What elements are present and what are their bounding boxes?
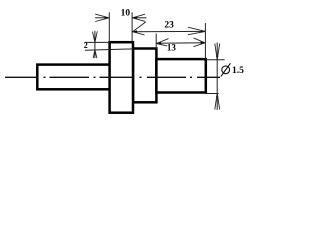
arrowhead diameter top (points down)	[216, 56, 218, 60]
extension line for dim 2 upper (flange OD extended left)	[85, 41, 110, 43]
arrowhead dim13 left (points left)	[156, 42, 161, 45]
arrowhead dim13 right (points right)	[201, 41, 206, 44]
dimension line 2 (vertical)	[94, 31, 96, 58]
extension line for dim 10 (left, above flange)	[108, 12, 110, 42]
extension line for diameter dim bottom (shaft OD extended right)	[205, 93, 219, 95]
svg-text:10: 10	[121, 9, 131, 19]
svg-text:2: 2	[84, 41, 88, 50]
arrowhead dim2 top (points down)	[94, 38, 96, 42]
centerline (dash-dot axis)	[5, 76, 220, 78]
arrowhead dim23 left (points left)	[132, 30, 137, 33]
shaft section S4 (right end cylinder)	[156, 59, 205, 92]
dimension line 13	[156, 42, 205, 45]
svg-text:1.5: 1.5	[232, 66, 244, 76]
arrowhead dim23 right (points right)	[201, 30, 206, 33]
arrowhead dim2 bottom (points up)	[94, 50, 96, 54]
shaft section S1 (left small cylinder)	[37, 65, 110, 90]
extension line for dim 2 lower (medium cylinder OD extended left across flange)	[85, 49, 134, 50]
dimension line 10 left segment	[95, 17, 109, 19]
extension line for dim 13 left end (step edge extended up)	[155, 34, 157, 50]
shaft section S2 (central flange, largest diameter)	[110, 42, 133, 113]
dimension line 23	[132, 30, 205, 32]
extension line shared by dim 10 right end and dim 23 left end	[131, 12, 133, 42]
arrowhead dim10 left (points right at extension line)	[105, 16, 110, 19]
arrowhead dim10 right (points left at extension line)	[132, 16, 137, 19]
extension line for diameter dim top (shaft OD extended right)	[206, 59, 225, 61]
diameter symbol (circle with slash)	[222, 66, 230, 74]
dimension line diameter (vertical)	[216, 43, 218, 111]
shaft section S3 (medium cylinder right of flange)	[133, 49, 156, 103]
svg-text:13: 13	[167, 43, 177, 53]
svg-text:23: 23	[164, 21, 174, 31]
dimension line 10 right segment	[132, 17, 146, 19]
arrowhead diameter bottom (points up)	[216, 93, 218, 97]
extension line for dim 23 / 13 right ends (shaft end extended up)	[204, 23, 206, 60]
